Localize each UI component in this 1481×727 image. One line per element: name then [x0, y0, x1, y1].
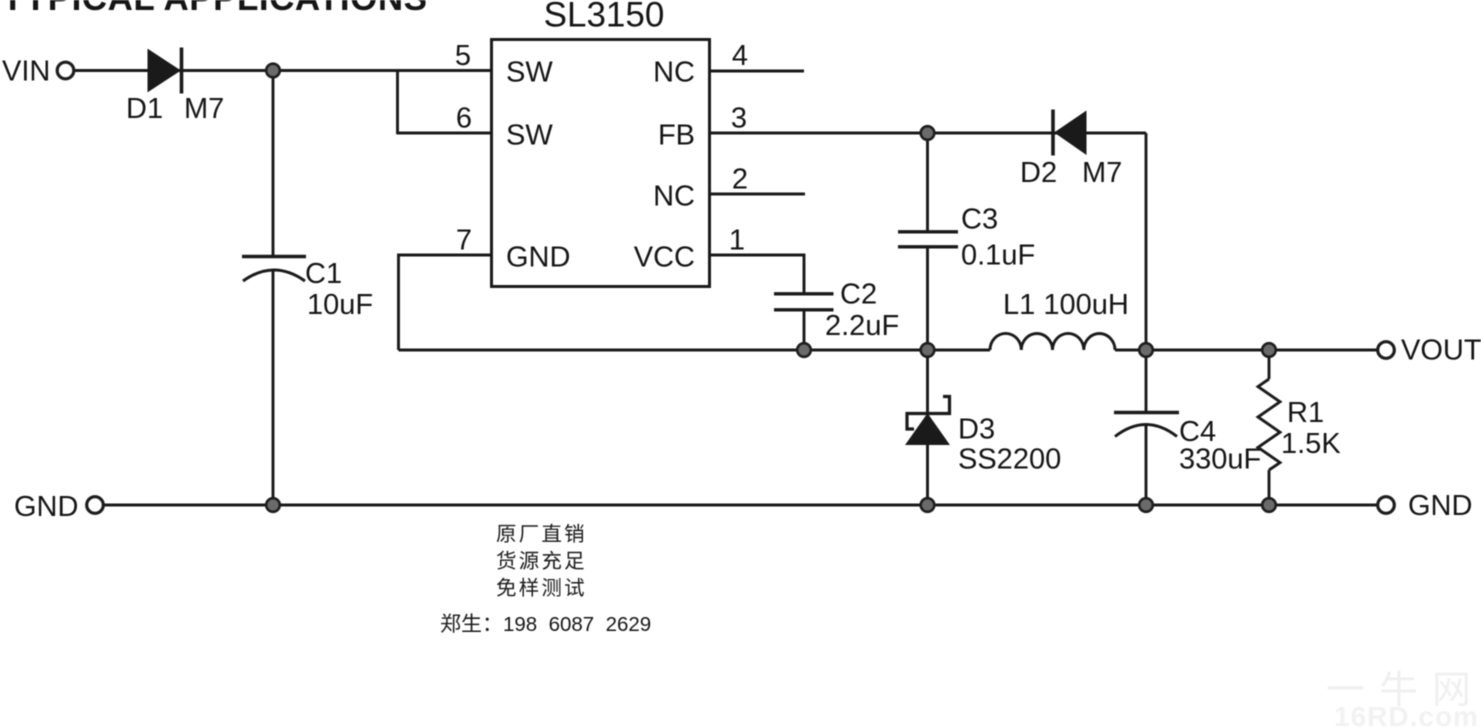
wire VIN to pin 5 (top rail) — [74, 69, 492, 72]
wire mid rail left — [399, 349, 991, 352]
svg-text:D2: D2 — [1020, 157, 1057, 189]
wire branch down to pin 6 — [396, 71, 399, 135]
svg-text:FB: FB — [658, 120, 695, 152]
svg-text:R1: R1 — [1287, 397, 1324, 429]
svg-text:16RD.com: 16RD.com — [1334, 701, 1479, 727]
pin number 6 — [456, 103, 472, 135]
watermark logo — [1328, 670, 1468, 706]
terminal GND left — [87, 497, 104, 514]
terminal VIN — [57, 62, 74, 79]
diode D1 (anode left, cathode bar right) — [148, 48, 182, 94]
note text contact line — [441, 613, 651, 636]
IC U1 pin name VCC (pin 1) — [634, 242, 695, 274]
node junction at C4 bottom on GND rail — [1139, 498, 1153, 512]
wire R1 bottom lead — [1268, 470, 1271, 505]
wire pin 1 VCC to C2 — [709, 255, 804, 294]
IC U1 pin name SW (pin 5) — [506, 57, 553, 89]
node junction at C1 bottom on GND rail — [266, 498, 280, 512]
svg-text:7: 7 — [456, 225, 472, 257]
node junction at R1 top — [1262, 343, 1276, 357]
IC U1 pin name GND (pin 7) — [506, 242, 570, 274]
svg-text:NC: NC — [653, 181, 695, 213]
wire C4 branch — [1145, 350, 1148, 505]
svg-text:4: 4 — [732, 40, 748, 72]
IC U1 pin name FB (pin 3) — [658, 120, 695, 152]
svg-text:0.1uF: 0.1uF — [961, 240, 1035, 272]
node junction at L1 right / C4 top — [1139, 343, 1153, 357]
IC U1 body — [492, 40, 710, 287]
label 330uF (C4 value) — [1179, 444, 1261, 476]
label L1 100uH (inductor value) — [1003, 289, 1129, 321]
IC U1 label SL3150 — [544, 0, 665, 35]
svg-text:VIN: VIN — [2, 56, 50, 88]
label GND right — [1408, 490, 1472, 522]
note text line 1 — [497, 524, 584, 543]
wire pin 2 stub — [709, 193, 805, 196]
svg-text:1.5K: 1.5K — [1281, 428, 1341, 460]
svg-text:VOUT: VOUT — [1401, 335, 1481, 367]
inductor L1 — [990, 333, 1115, 350]
svg-text:6: 6 — [456, 103, 472, 135]
note text line 2 — [497, 551, 584, 570]
label C4 — [1179, 416, 1216, 448]
wire pin 7 to mid rail — [399, 255, 492, 350]
diode D2 (cathode bar left, anode right) — [1053, 110, 1086, 156]
wire bottom rail GND — [104, 504, 1377, 507]
title TYPICAL APPLICATIONS (cropped at top) — [2, 0, 428, 18]
node junction at FB / C3 top — [921, 126, 935, 140]
svg-text:5: 5 — [455, 40, 471, 72]
wire C1 top branch — [272, 71, 275, 257]
capacitor C3 — [898, 232, 958, 247]
svg-text:SS2200: SS2200 — [958, 444, 1061, 476]
wire C1 bottom branch — [272, 270, 275, 506]
label M7 (D2 value) — [1082, 157, 1122, 189]
label GND left — [14, 491, 78, 523]
capacitor C2 — [774, 294, 834, 310]
svg-text:M7: M7 — [184, 93, 224, 125]
label 10uF (C1 value) — [307, 289, 373, 321]
wire D3 branch — [926, 350, 929, 505]
IC U1 pin name SW (pin 6) — [506, 120, 553, 152]
svg-text:VCC: VCC — [634, 242, 695, 274]
pin number 1 — [729, 225, 745, 257]
label C3 — [961, 204, 998, 236]
note text line 3 — [497, 578, 584, 597]
svg-text:L1 100uH: L1 100uH — [1003, 289, 1129, 321]
svg-text:SL3150: SL3150 — [544, 0, 665, 35]
IC U1 pin name NC (pin 4) — [653, 57, 695, 89]
wire pin 4 stub — [709, 70, 804, 73]
svg-text:C3: C3 — [961, 204, 998, 236]
label SS2200 (D3 value) — [958, 444, 1061, 476]
svg-text:1: 1 — [729, 225, 745, 257]
svg-text:3: 3 — [731, 103, 747, 135]
wire C3 top branch — [926, 133, 929, 232]
svg-text:SW: SW — [506, 57, 553, 89]
svg-text:D1: D1 — [126, 93, 163, 125]
node junction at C2 bottom on mid rail — [797, 343, 811, 357]
label 0.1uF (C3 value) — [961, 240, 1035, 272]
wire pin 6 — [397, 132, 492, 135]
label D2 — [1020, 157, 1057, 189]
capacitor C4 (polarized) — [1114, 413, 1179, 437]
pin number 5 — [455, 40, 471, 72]
svg-text:D3: D3 — [958, 414, 995, 446]
label VOUT — [1401, 335, 1481, 367]
svg-text:M7: M7 — [1082, 157, 1122, 189]
wire mid rail right to VOUT — [1115, 349, 1378, 352]
pin number 2 — [732, 164, 748, 196]
svg-text:2.2uF: 2.2uF — [825, 310, 899, 342]
svg-text:GND: GND — [14, 491, 78, 523]
label M7 (D1 value) — [184, 93, 224, 125]
label D1 — [126, 93, 163, 125]
svg-text:C2: C2 — [840, 279, 877, 311]
pin number 3 — [731, 103, 747, 135]
wire C2 bottom to mid rail — [803, 310, 806, 351]
pin number 7 — [456, 225, 472, 257]
IC U1 pin name NC (pin 2) — [653, 181, 695, 213]
label VIN — [2, 56, 50, 88]
zener diode D3 (cathode bar top with hooks, anode below) — [906, 397, 950, 445]
svg-text:10uF: 10uF — [307, 289, 373, 321]
capacitor C1 (polarized) — [242, 257, 306, 282]
label R1 — [1287, 397, 1324, 429]
pin number 4 — [732, 40, 748, 72]
svg-text:C1: C1 — [305, 258, 342, 290]
label C1 — [305, 258, 342, 290]
terminal VOUT — [1378, 342, 1395, 359]
svg-text:330uF: 330uF — [1179, 444, 1261, 476]
svg-text:GND: GND — [1408, 490, 1472, 522]
svg-text:198 6087 2629: 198 6087 2629 — [503, 613, 651, 636]
svg-text:TYPICAL APPLICATIONS: TYPICAL APPLICATIONS — [2, 0, 428, 18]
label 2.2uF (C2 value) — [825, 310, 899, 342]
resistor R1 (zigzag) — [1258, 379, 1280, 470]
wire pin 3 FB to D2 — [709, 132, 1146, 135]
wire R1 top lead — [1268, 350, 1271, 379]
svg-text:2: 2 — [732, 164, 748, 196]
node junction at D3 bottom on GND rail — [921, 498, 935, 512]
terminal GND right — [1378, 497, 1395, 514]
node junction at R1 bottom on GND rail — [1262, 498, 1276, 512]
svg-text:GND: GND — [506, 242, 570, 274]
label C2 — [840, 279, 877, 311]
node junction at C1 top — [266, 64, 280, 78]
label D3 — [958, 414, 995, 446]
watermark url — [1334, 701, 1479, 727]
wire C3 bottom branch — [926, 247, 929, 351]
svg-text:NC: NC — [653, 57, 695, 89]
label 1.5K (R1 value) — [1281, 428, 1341, 460]
svg-text:SW: SW — [506, 120, 553, 152]
node junction at C3 bottom / D3 top on mid rail — [921, 343, 935, 357]
wire right vertical D2 to L1 — [1145, 133, 1148, 350]
